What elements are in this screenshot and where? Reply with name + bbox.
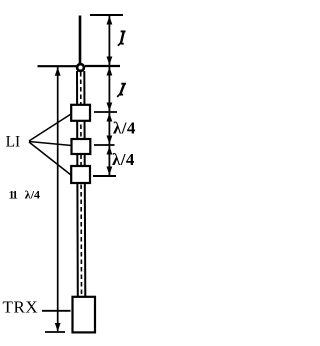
arrow up from first tick: [107, 113, 113, 122]
arrow up at top tick: [107, 16, 113, 25]
tick at second box level: [94, 144, 115, 146]
svg-text:λ/4: λ/4: [112, 150, 135, 169]
wire dashed center conductor: [80, 72, 83, 296]
wire LI pointer lower: [29, 142, 71, 175]
node feed-point circle: [77, 64, 84, 71]
arrow up at antenna top left: [55, 67, 61, 76]
wire sleeve left conductor: [76, 71, 79, 297]
wire LI pointer upper: [29, 114, 71, 141]
arrow down to first tick: [107, 103, 113, 112]
label l first segment: [119, 31, 125, 45]
wire right dimension line: [108, 16, 110, 176]
svg-text:λ/4: λ/4: [25, 188, 40, 202]
arrow down at bottom left: [55, 323, 61, 332]
arrow down to third tick: [107, 167, 113, 176]
wire TRX pointer: [42, 310, 71, 312]
tick bottom of left dimension: [45, 331, 65, 333]
arrow down to second tick: [107, 136, 113, 145]
coil box L3 bottom: [71, 166, 90, 183]
tick at first box level: [94, 111, 117, 113]
coil box L2 middle: [72, 139, 91, 154]
wire left dimension line: [57, 67, 59, 331]
label l second segment: [118, 84, 125, 97]
wire whip top element: [79, 16, 82, 65]
arrow up from second tick: [107, 146, 113, 155]
coil box L1 top: [71, 105, 90, 121]
svg-text:LI: LI: [6, 134, 21, 151]
tick at third box level: [93, 175, 116, 177]
wire antenna-top horizontal line right: [85, 65, 120, 67]
arrow up from antenna top: [107, 67, 113, 76]
svg-text:λ/4: λ/4: [113, 119, 136, 138]
wire sleeve right conductor: [84, 71, 85, 297]
wire LI pointer middle: [29, 142, 72, 146]
TRX feed box: [73, 297, 96, 333]
wire antenna-top horizontal line left: [38, 65, 77, 67]
arrow down to antenna top: [107, 57, 113, 66]
tick top dimension: [90, 14, 123, 16]
svg-text:TRX: TRX: [3, 298, 39, 317]
